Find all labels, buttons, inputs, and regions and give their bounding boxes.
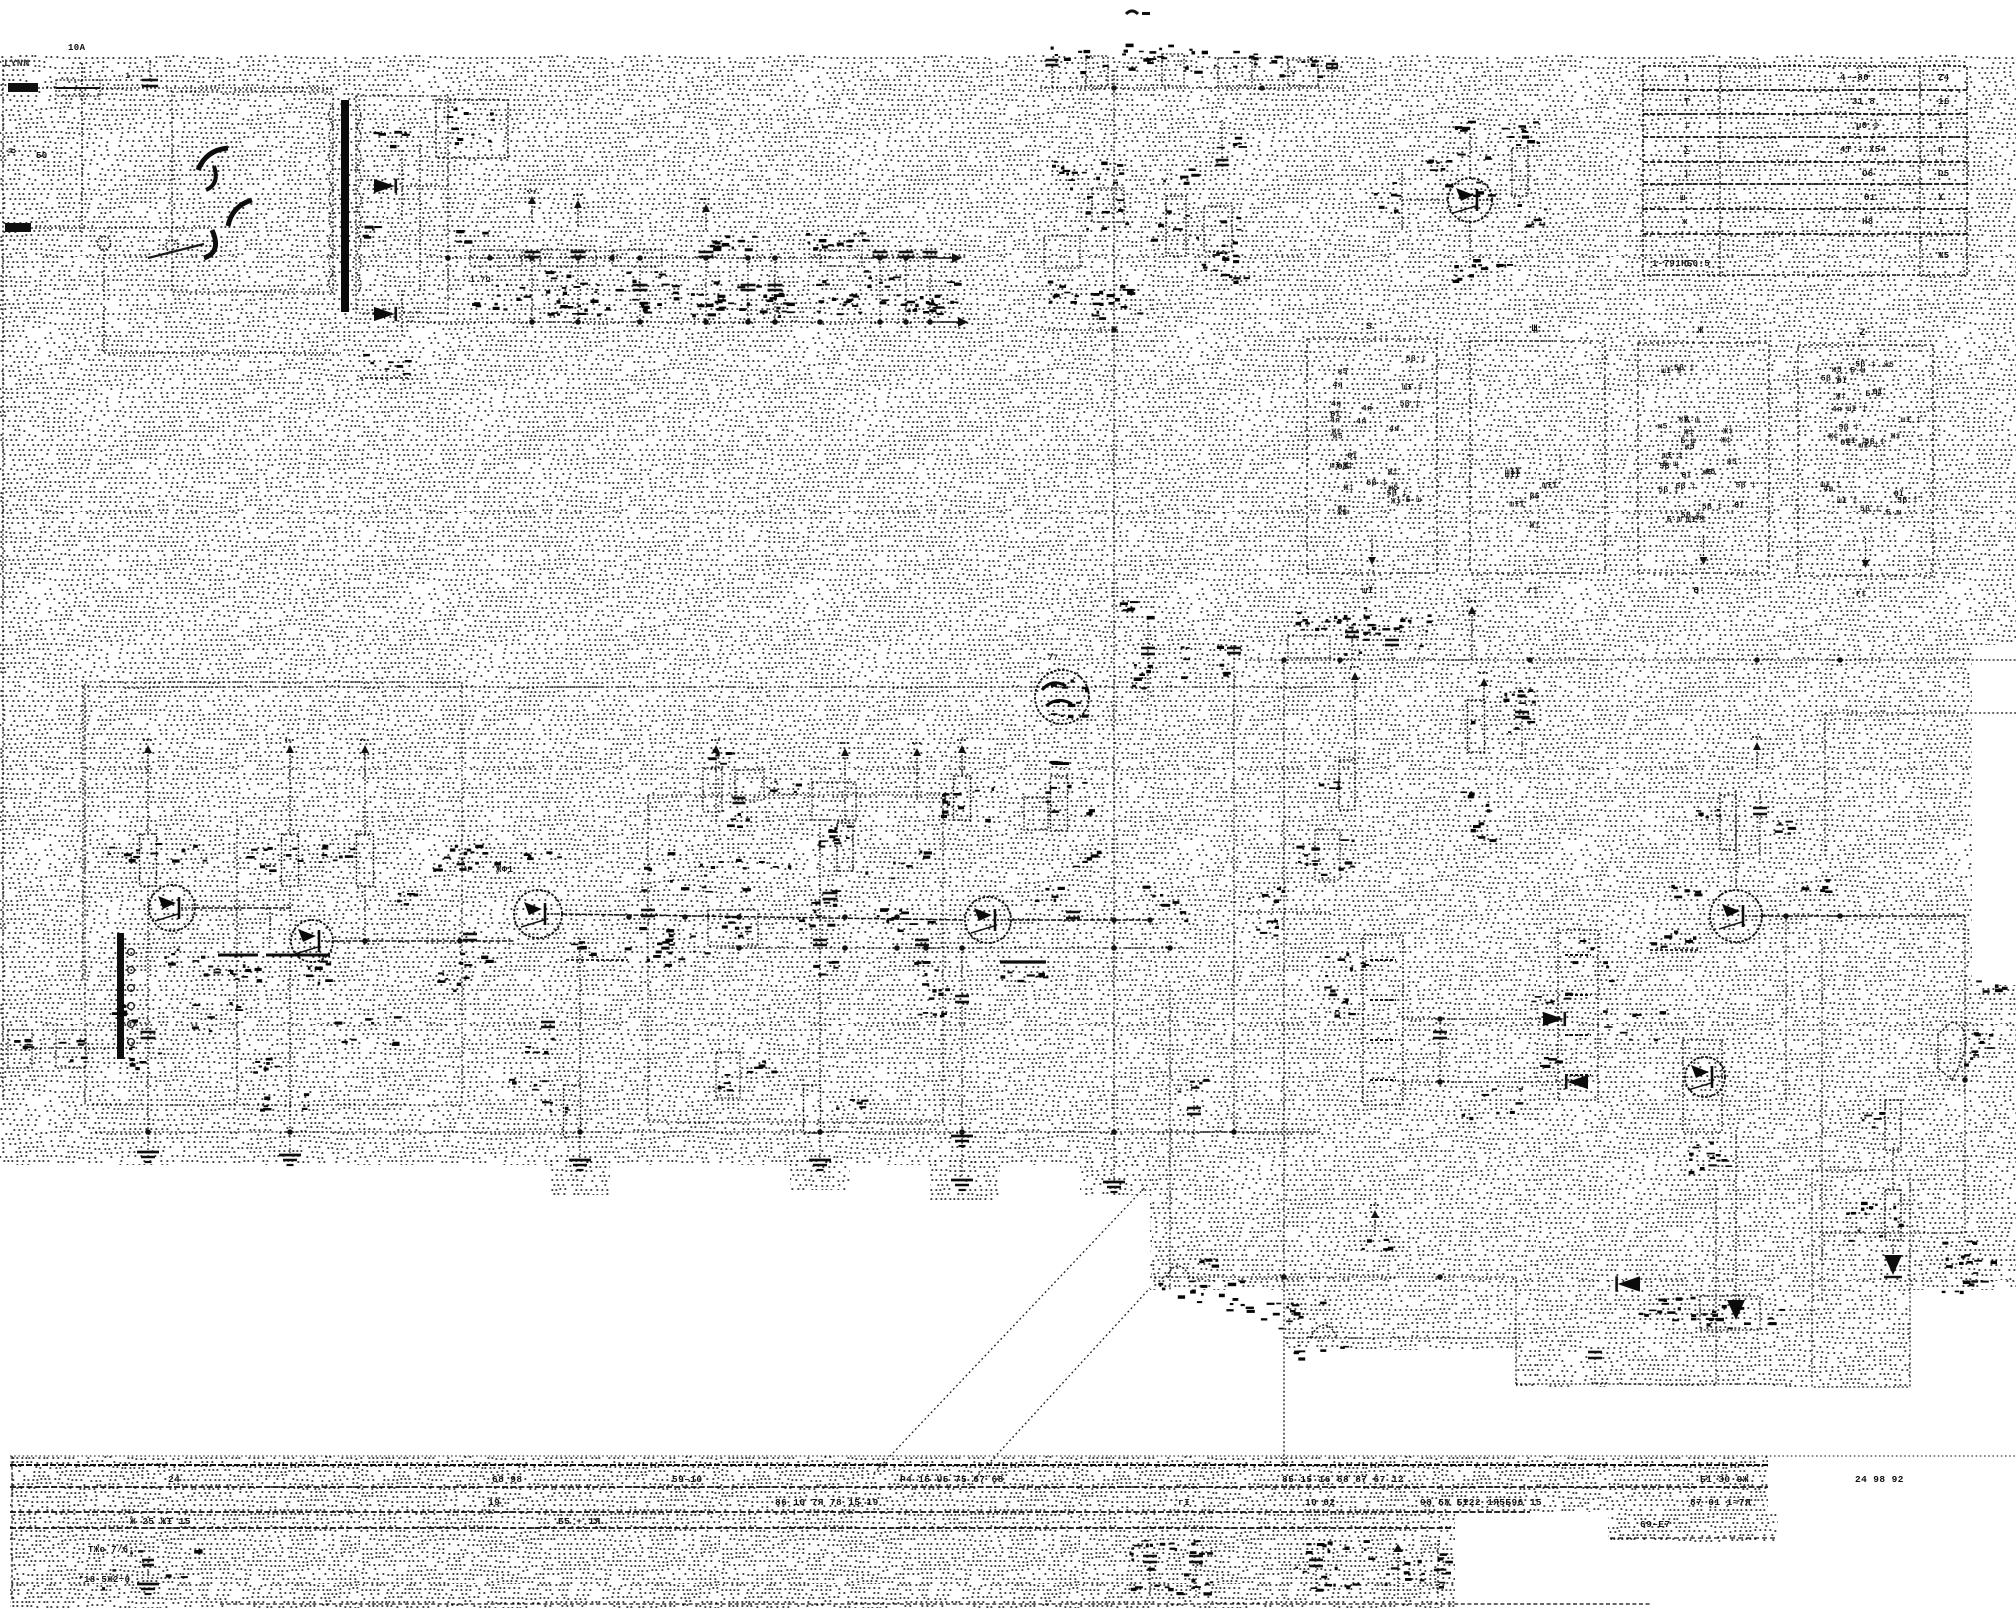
wire top distribution <box>1040 87 1210 89</box>
svg-text:P4 15 U5 75 67 68: P4 15 U5 75 67 68 <box>900 1474 1004 1485</box>
svg-text:10 62: 10 62 <box>1305 1497 1336 1508</box>
capacitor C18 <box>727 798 750 828</box>
primary enclosure box <box>172 92 333 292</box>
svg-text:Ж‡: Ж‡ <box>1337 505 1347 514</box>
mains terminal N <box>5 223 212 232</box>
svg-text:шƗ ‡: шƗ ‡ <box>1662 451 1683 460</box>
output transformer T4 <box>1683 1040 1728 1162</box>
component cluster X62 <box>260 1093 309 1112</box>
component cluster X27 <box>1363 614 1432 647</box>
label Q1 type <box>164 949 236 977</box>
svg-text:Χ: Χ <box>1938 193 1944 203</box>
rectifier D1 <box>373 131 410 222</box>
capacitor C1 line filter <box>120 60 158 86</box>
table row3 text <box>130 1516 601 1527</box>
diode D5 <box>1884 1255 1902 1277</box>
svg-text:ш: ш <box>1680 193 1686 203</box>
diode D3 <box>1531 993 1572 1027</box>
wire x1822 <box>1821 940 1823 1300</box>
component cluster X5 <box>763 280 830 318</box>
transistor Q5 <box>1710 890 1762 942</box>
middle stage box <box>648 795 943 1122</box>
transistor Q7 <box>1685 1057 1725 1097</box>
label under Q3 <box>566 941 685 961</box>
label small 2- <box>1059 167 1078 174</box>
switch S1 contact a <box>198 148 228 190</box>
vertical line V2 <box>1227 645 1241 1132</box>
label cluster MOhm <box>1091 289 1129 317</box>
component cluster X16 <box>1052 161 1087 191</box>
svg-text:LYNN: LYNN <box>4 59 30 70</box>
svg-text:ƟЇ: ƟЇ <box>1837 377 1847 386</box>
svg-text:ƟЇ: ƟЇ <box>1347 452 1357 461</box>
component cluster X19 <box>1212 217 1241 256</box>
node rect output <box>445 255 451 261</box>
label R7 <box>108 847 141 863</box>
svg-text:24 98 92: 24 98 92 <box>1855 1474 1904 1485</box>
lamp bump 2 <box>1294 1325 1350 1361</box>
svg-text:5β ‡: 5β ‡ <box>1675 482 1696 491</box>
svg-text:ж5: ж5 <box>1678 415 1688 424</box>
resistor R6 <box>1512 121 1539 196</box>
component cluster X55 <box>1131 1540 1213 1591</box>
svg-text:Н8: Н8 <box>1862 217 1874 227</box>
capacitor C14 <box>1385 619 1412 660</box>
svg-text:шƗ ‡: шƗ ‡ <box>1661 367 1682 376</box>
capacitor C3 <box>560 195 598 322</box>
component cluster X20 <box>1093 285 1144 320</box>
capacitor C8 <box>864 252 890 322</box>
label under input <box>112 1005 138 1023</box>
svg-text:шƗ ‡: шƗ ‡ <box>1846 437 1867 446</box>
wire bus lower stub <box>1040 327 1118 333</box>
component cluster X53 <box>1846 1206 1904 1242</box>
rail right mid <box>1240 888 1332 937</box>
diode D4 <box>1540 1057 1588 1089</box>
component cluster X41 <box>704 859 791 893</box>
feedback line <box>83 687 1340 980</box>
supply arrow A5 <box>840 743 850 824</box>
wire Q3 out <box>562 914 964 920</box>
svg-text:Б·ш: Б·ш <box>1406 496 1422 505</box>
svg-text:∑: ∑ <box>1684 145 1690 155</box>
resistor R15 bottom <box>542 1085 581 1137</box>
svg-text:87 01 1≈7Я: 87 01 1≈7Я <box>1690 1497 1751 1508</box>
label 50Hz <box>36 151 48 161</box>
supply arrow A3 <box>360 740 370 771</box>
svg-text:ж5: ж5 <box>1727 458 1737 467</box>
component cluster X7 <box>913 281 962 315</box>
svg-text:4Τ – Χ54: 4Τ – Χ54 <box>1840 145 1887 155</box>
oscillator coil L4 <box>1035 654 1089 724</box>
svg-text:18·5Ж2÷0: 18·5Ж2÷0 <box>84 1575 130 1585</box>
component cluster X26 <box>1305 616 1371 656</box>
component cluster X50 <box>1241 1302 1327 1330</box>
component cluster X51 <box>1639 1299 1697 1322</box>
svg-text:ƟЇ: ƟЇ <box>1734 502 1744 511</box>
speaker LS1 <box>1938 1022 1994 1083</box>
vertical bus line <box>1113 70 1115 1132</box>
component cluster X38 <box>266 845 328 872</box>
label R9 <box>322 848 355 862</box>
svg-text:шƗЇ: шƗЇ <box>1505 471 1521 480</box>
supply arrow A8 <box>1350 667 1360 760</box>
svg-text:1: 1 <box>1938 217 1944 227</box>
component cluster rail a <box>1288 612 1331 658</box>
capacitor C15 coupling <box>459 934 494 966</box>
scan mark top <box>1126 11 1150 15</box>
ground bus <box>1103 1132 1125 1192</box>
supply arrow A1 <box>143 740 153 771</box>
svg-text:|: | <box>1684 169 1690 179</box>
supply arrow A7 <box>957 740 967 776</box>
svg-text:Ж: Ж <box>1698 326 1704 337</box>
svg-text:шƗ ‡: шƗ ‡ <box>1330 462 1351 471</box>
component cluster X9 <box>806 233 870 251</box>
wire x1786 <box>1783 879 1832 1102</box>
component cluster X43 <box>941 787 994 822</box>
choke L1 <box>470 250 522 285</box>
svg-text:шƗ ‡: шƗ ‡ <box>1686 516 1707 525</box>
resistor R21 <box>1861 1190 1901 1240</box>
resistor R17 <box>1319 760 1355 810</box>
resistor R13 <box>942 776 971 820</box>
svg-text:1: 1 <box>1938 121 1944 131</box>
resistor R4 <box>1044 236 1080 304</box>
svg-text:Ɵ1: Ɵ1 <box>1864 193 1876 203</box>
capacitor C21 <box>914 940 939 976</box>
bottom comp cluster c <box>1385 1544 1412 1600</box>
rail2 mid <box>716 945 1200 951</box>
label 6.3V <box>363 226 382 239</box>
label 38 ohm <box>1073 851 1101 867</box>
component cluster X3 <box>616 271 680 306</box>
component cluster X49 <box>1189 1280 1245 1311</box>
wire stage3 top <box>364 771 366 941</box>
component cluster X15 <box>1301 58 1334 78</box>
svg-text:Ж‡: Ж‡ <box>1828 432 1838 441</box>
svg-text:Ö6: Ö6 <box>1862 168 1874 179</box>
wire Q1 Q2 <box>195 908 291 941</box>
input jack J2 <box>56 1030 88 1068</box>
resistor R7 <box>140 834 157 886</box>
component cluster X24 <box>1502 128 1540 146</box>
component cluster X8 <box>713 235 757 251</box>
transistor Q3 <box>514 890 562 938</box>
pilot lamp <box>98 237 111 301</box>
parts table <box>1643 66 1967 275</box>
ground stage4 <box>951 1180 973 1190</box>
wire mains drop <box>81 63 83 235</box>
component cluster X40 <box>641 852 706 892</box>
component cluster X18 <box>1151 210 1199 241</box>
resistor R14 <box>1024 761 1069 831</box>
resistor R2 <box>1086 56 1108 86</box>
wire right chain <box>1892 1150 1894 1255</box>
svg-text:24: 24 <box>168 1474 180 1485</box>
svg-text:ΤЖо 7/6: ΤЖо 7/6 <box>88 1545 129 1555</box>
svg-text:1: 1 <box>1684 73 1690 83</box>
component cluster X44 <box>1045 782 1095 815</box>
svg-text:Ж‡: Ж‡ <box>1388 469 1398 478</box>
mains terminal L <box>8 83 332 92</box>
svg-text:шƗ ‡: шƗ ‡ <box>1901 416 1922 425</box>
switch S1 contact b <box>148 200 252 258</box>
svg-text:4я: 4я <box>1333 381 1343 390</box>
svg-text:шƗЇ: шƗЇ <box>1509 500 1525 509</box>
component cluster X13 <box>1185 49 1240 74</box>
svg-text:Ж‡: Ж‡ <box>1344 484 1354 493</box>
svg-text:Б5 + 1Я: Б5 + 1Я <box>558 1516 601 1527</box>
svg-text:S: S <box>1366 322 1372 333</box>
mains label LYNX <box>4 59 30 70</box>
junction top bus <box>1111 85 1117 91</box>
svg-text:ж5: ж5 <box>1388 484 1398 493</box>
component cluster X54 <box>1946 1254 1997 1284</box>
return rail <box>402 321 948 323</box>
svg-text:µ0 ‡: µ0 ‡ <box>1856 121 1879 131</box>
wire diode row <box>1403 1016 1562 1085</box>
svg-text:Ж‡: Ж‡ <box>1890 433 1900 442</box>
svg-text:Ж‡: Ж‡ <box>1836 392 1846 401</box>
module box M1 <box>1307 322 1437 596</box>
transformer T1 secondary winding <box>357 106 361 294</box>
svg-text:г‡: г‡ <box>1528 586 1540 596</box>
svg-text:шƗ ‡: шƗ ‡ <box>1837 497 1858 506</box>
wire q7 down <box>1727 1130 1745 1320</box>
svg-text:Ж‡: Ж‡ <box>1723 427 1733 436</box>
svg-text:4я: 4я <box>1823 485 1833 494</box>
component cluster X6 <box>848 276 915 313</box>
svg-text:69–Е7: 69–Е7 <box>1640 1519 1671 1530</box>
svg-text:4я: 4я <box>1389 425 1399 434</box>
capacitor C2 <box>525 191 540 322</box>
secondary box <box>356 96 448 313</box>
capacitor C11 <box>1092 162 1124 223</box>
svg-text:Б1 30 9Ж: Б1 30 9Ж <box>1700 1474 1749 1485</box>
capacitor C6 <box>741 258 756 322</box>
svg-text:4я: 4я <box>1356 417 1366 426</box>
svg-text:шЇ: шЇ <box>1362 585 1374 596</box>
AC symbol <box>8 144 16 159</box>
svg-text:ƟЇ: ƟЇ <box>1873 388 1883 397</box>
svg-text:ж5: ж5 <box>1337 368 1347 377</box>
rail lower c <box>1516 1383 1792 1385</box>
svg-text:5β ‡: 5β ‡ <box>1839 423 1860 432</box>
rail lower a <box>1150 1274 1516 1280</box>
rectifier D2 <box>360 290 412 378</box>
wire Q6 emitter <box>1453 222 1489 283</box>
module box M2 <box>1470 324 1605 596</box>
svg-text:·1: ·1 <box>120 72 130 81</box>
component cluster X10 <box>456 230 489 244</box>
resistor R12 <box>819 823 854 871</box>
component cluster mid a <box>1202 120 1247 280</box>
svg-text:Б·ш: Б·ш <box>1663 460 1679 469</box>
component under rail b <box>708 910 758 946</box>
supply arrow A11 <box>1362 1205 1394 1251</box>
component under Q4 a <box>922 983 950 1000</box>
svg-text:5β ‡: 5β ‡ <box>1860 505 1881 514</box>
svg-text:≈: ≈ <box>8 144 16 159</box>
arrow feed rail <box>1467 601 1477 660</box>
svg-text:50: 50 <box>36 151 48 161</box>
rail mid-right <box>1245 657 2016 663</box>
capacitor C28 q1 <box>129 1032 162 1070</box>
svg-text:4я: 4я <box>1832 406 1842 415</box>
svg-text:Ɵ·: Ɵ· <box>1694 586 1706 596</box>
svg-text:4я: 4я <box>1331 400 1341 409</box>
resistor R8 <box>282 834 299 886</box>
wire Q6 base <box>1374 168 1448 232</box>
capacitor C17 coupling <box>1035 887 1080 918</box>
node return end <box>915 303 968 327</box>
resistor R19 <box>1696 795 1736 850</box>
component cluster X57 <box>1418 1553 1447 1588</box>
svg-text:59–10: 59–10 <box>672 1474 703 1485</box>
capacitor C13 <box>1337 607 1370 660</box>
component cluster X17 <box>1086 196 1130 230</box>
component cluster X36 <box>1689 1144 1733 1174</box>
svg-text:Щ: Щ <box>1532 324 1538 335</box>
svg-text:19: 19 <box>488 1497 500 1508</box>
component cluster X32 <box>1460 791 1496 842</box>
component cluster X4 <box>692 281 767 317</box>
choke L2 <box>540 250 596 279</box>
note bottom left <box>84 1545 159 1594</box>
bottom comp cluster b <box>1306 1541 1351 1598</box>
vertical stage2 drop <box>289 962 291 1132</box>
svg-text:1-791НБ0·5: 1-791НБ0·5 <box>1652 259 1710 269</box>
vertical stage4 drop <box>819 824 821 1085</box>
wire Q5 collector <box>1735 790 1737 890</box>
svg-text:5β ‡: 5β ‡ <box>1736 481 1757 490</box>
capacitor C25 <box>1753 790 1796 860</box>
capacitor C5 <box>691 199 726 322</box>
capacitor C9 <box>899 252 941 322</box>
wire secondary top <box>402 140 448 290</box>
component cluster X48 <box>1143 886 1189 923</box>
rail lower b <box>1285 1337 1516 1339</box>
transformer T1 primary winding <box>329 105 333 293</box>
component cluster X21 <box>1213 258 1250 284</box>
junction dots B+ rail <box>487 255 909 261</box>
capacitor C26 <box>1178 1079 1210 1140</box>
transformer T1 core <box>341 100 349 312</box>
label right edge <box>1976 980 2007 992</box>
vertical lower x1716 <box>1715 1180 1717 1384</box>
component cluster top right b <box>1288 60 1338 88</box>
output box top <box>1825 713 2016 855</box>
input stage box <box>85 682 462 1105</box>
resistor R20 <box>1862 1100 1901 1150</box>
wire right drop <box>1822 916 1965 1233</box>
vertical stage1 drop <box>147 931 149 1132</box>
component cluster X45 <box>647 929 711 967</box>
svg-text:ж5: ж5 <box>1657 423 1667 432</box>
switch knob <box>166 240 178 252</box>
svg-text:ƟЇ: ƟЇ <box>1681 471 1691 480</box>
label Q3 type <box>455 845 562 875</box>
component cluster mid c <box>716 1052 777 1098</box>
junction dots return rail <box>529 319 933 325</box>
fuse F1 10A <box>56 43 100 96</box>
label R8 <box>247 847 276 869</box>
IF transformer T2 <box>1324 935 1403 1105</box>
label AC117 dark <box>1000 962 1049 982</box>
wire Q2 Q3 <box>333 938 514 944</box>
svg-text:Z: Z <box>1860 328 1866 339</box>
input jack J1 <box>8 1030 34 1068</box>
component cluster right a <box>1296 830 1340 880</box>
resistor R5 <box>1163 168 1199 256</box>
capacitor C16 coupling <box>641 910 655 916</box>
supply arrow A10 <box>1752 737 1762 768</box>
wire stage1 top <box>147 771 149 931</box>
resistor R1 <box>819 250 863 315</box>
component cluster X46 <box>799 890 840 930</box>
svg-text:Z4: Z4 <box>1938 73 1950 83</box>
component cluster X31 <box>1471 693 1535 733</box>
component cluster X34 <box>1603 1010 1666 1041</box>
label 22K <box>1199 1259 1219 1268</box>
IF transformer T3 <box>1558 930 1598 1100</box>
svg-text:Ж 25 ЖƗ 15: Ж 25 ЖƗ 15 <box>130 1516 191 1527</box>
component cluster X35 <box>1462 1088 1524 1120</box>
component cluster X42 <box>865 850 932 879</box>
supply arrow A2 <box>285 740 295 771</box>
lamp loop wire <box>104 306 341 353</box>
choke L3 <box>612 250 662 266</box>
wire lower rail <box>95 1129 1320 1135</box>
component cluster X29 <box>1306 839 1355 876</box>
svg-text:шƗЇ: шƗЇ <box>1542 481 1558 490</box>
svg-text:шƗ ‡: шƗ ‡ <box>1402 384 1423 393</box>
component cluster X37 <box>150 843 207 863</box>
lamp bump 1 <box>1158 1266 1207 1299</box>
label 851 <box>880 908 909 922</box>
svg-text:4я: 4я <box>1330 416 1340 425</box>
table row2 text <box>488 1497 1751 1508</box>
wire Q5 emitter right <box>1762 913 1965 919</box>
resistor R9 <box>357 834 374 886</box>
label right lower <box>1942 1241 1983 1294</box>
vertical stage5 <box>1169 985 1171 1290</box>
svg-text:85 15 16 68 87 67 12: 85 15 16 68 87 67 12 <box>1282 1474 1404 1485</box>
svg-text:Ж5: Ж5 <box>1938 251 1950 261</box>
svg-text:Ж‡: Ж‡ <box>1391 498 1401 507</box>
svg-text:T: T <box>1684 97 1690 107</box>
capacitor C24 <box>1433 1019 1447 1082</box>
wire Q4 out <box>1012 917 1153 923</box>
label +245 <box>710 232 866 251</box>
component under Q4 b <box>918 1012 947 1017</box>
capacitor C22 q4 <box>955 948 969 1176</box>
svg-text:1£: 1£ <box>1938 97 1950 107</box>
svg-text:5β ‡: 5β ‡ <box>1897 496 1918 505</box>
transistor Q4 <box>965 897 1011 943</box>
wire stage2 top <box>289 771 291 918</box>
table row1 text <box>168 1474 1904 1485</box>
component cluster X52 <box>1703 1305 1786 1329</box>
auxiliary box <box>436 100 508 158</box>
component cluster X60 <box>335 1016 401 1046</box>
component under rail a <box>639 927 675 950</box>
table note right <box>1610 1519 1775 1538</box>
module box M4 <box>1798 328 1933 599</box>
transistor Q6 <box>1427 154 1492 223</box>
svg-text:Ω5: Ω5 <box>1938 169 1950 179</box>
